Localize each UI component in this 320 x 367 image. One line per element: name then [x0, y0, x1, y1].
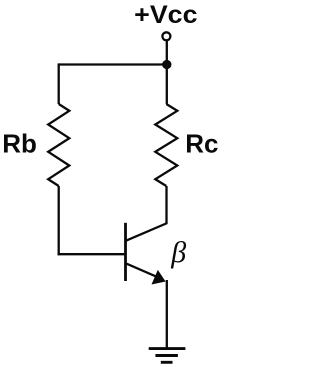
resistor Rb [48, 104, 69, 186]
transistor Q1 collector diagonal [126, 223, 168, 241]
wire: terminal to junction [166, 41, 168, 65]
svg-text:Rc: Rc [185, 129, 218, 159]
node junction dot [162, 60, 171, 69]
transistor Q1 emitter diagonal [126, 263, 163, 279]
wire: Rc bottom to collector [165, 186, 167, 224]
svg-text:β: β [170, 236, 186, 269]
wire: emitter down to ground [166, 280, 168, 349]
wire: left vertical to Rb top [58, 63, 60, 104]
transistor Q1 base bar [124, 223, 127, 281]
Vcc terminal (open circle) [162, 32, 170, 40]
wire: top horizontal [59, 63, 167, 65]
wire: base horizontal [58, 253, 126, 255]
wire: Rb bottom down [58, 186, 60, 255]
svg-text:+Vcc: +Vcc [134, 1, 197, 29]
wire: Vcc junction down to Rc top [166, 65, 168, 105]
svg-text:Rb: Rb [2, 129, 37, 159]
ground [149, 349, 186, 363]
resistor Rc [155, 104, 177, 186]
transistor Q1 emitter arrowhead [152, 270, 166, 285]
